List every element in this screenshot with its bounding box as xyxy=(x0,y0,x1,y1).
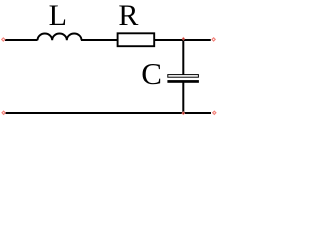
wire: top-left lead to inductor xyxy=(5,39,38,41)
inductor L1 coil xyxy=(38,33,82,40)
svg-text:C: C xyxy=(141,56,162,91)
terminal: top-left input xyxy=(2,38,5,41)
wire: bottom rail xyxy=(6,112,212,114)
terminal: top-right output xyxy=(212,38,215,41)
capacitor C1 top plate xyxy=(168,75,199,78)
junction node: bottom (cap tap) xyxy=(181,111,185,115)
terminal: bottom-left input xyxy=(2,111,5,114)
wire: inductor to resistor xyxy=(81,39,117,41)
wire: capacitor vertical top xyxy=(182,40,184,76)
wire: resistor to right terminal xyxy=(155,39,211,41)
junction node: top (cap tap) xyxy=(182,37,185,41)
resistor R1 body xyxy=(118,33,155,46)
svg-text:R: R xyxy=(118,0,138,32)
terminal: bottom-right output xyxy=(213,111,216,114)
svg-text:L: L xyxy=(49,0,67,32)
wire: capacitor vertical bottom xyxy=(182,83,184,114)
capacitor C1 bottom plate xyxy=(167,80,199,83)
